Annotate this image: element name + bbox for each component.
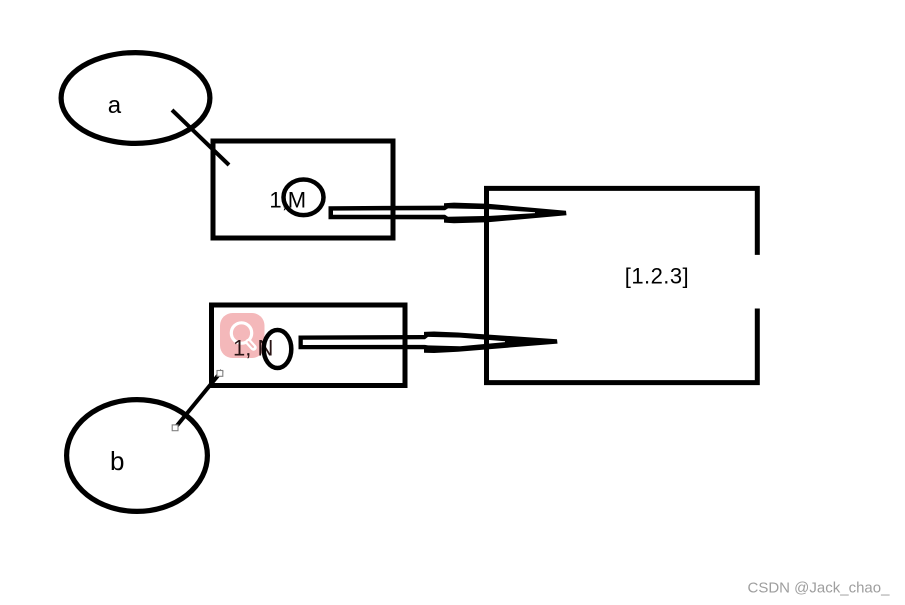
svg-text:a: a bbox=[108, 92, 122, 119]
svg-text:b: b bbox=[110, 446, 124, 476]
svg-text:CSDN @Jack_chao_: CSDN @Jack_chao_ bbox=[748, 579, 891, 596]
svg-text:[1.2.3]: [1.2.3] bbox=[625, 264, 689, 289]
